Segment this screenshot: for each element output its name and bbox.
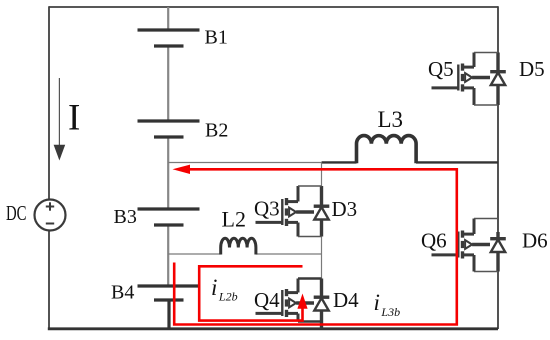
svg-text:B4: B4 bbox=[111, 281, 134, 303]
svg-text:I: I bbox=[68, 98, 80, 139]
svg-text:D4: D4 bbox=[333, 288, 359, 312]
svg-text:B2: B2 bbox=[205, 120, 228, 142]
svg-text:Q6: Q6 bbox=[421, 229, 447, 253]
svg-text:D3: D3 bbox=[332, 197, 358, 221]
svg-text:B3: B3 bbox=[114, 206, 137, 228]
svg-text:B1: B1 bbox=[205, 27, 228, 49]
svg-text:D5: D5 bbox=[519, 57, 545, 81]
svg-text:Q3: Q3 bbox=[254, 197, 280, 221]
svg-text:DC: DC bbox=[6, 201, 27, 225]
svg-text:L2: L2 bbox=[222, 207, 246, 232]
svg-text:D6: D6 bbox=[522, 229, 548, 253]
svg-text:Q4: Q4 bbox=[254, 288, 280, 312]
svg-text:L3: L3 bbox=[378, 107, 404, 132]
svg-text:Q5: Q5 bbox=[428, 57, 454, 81]
